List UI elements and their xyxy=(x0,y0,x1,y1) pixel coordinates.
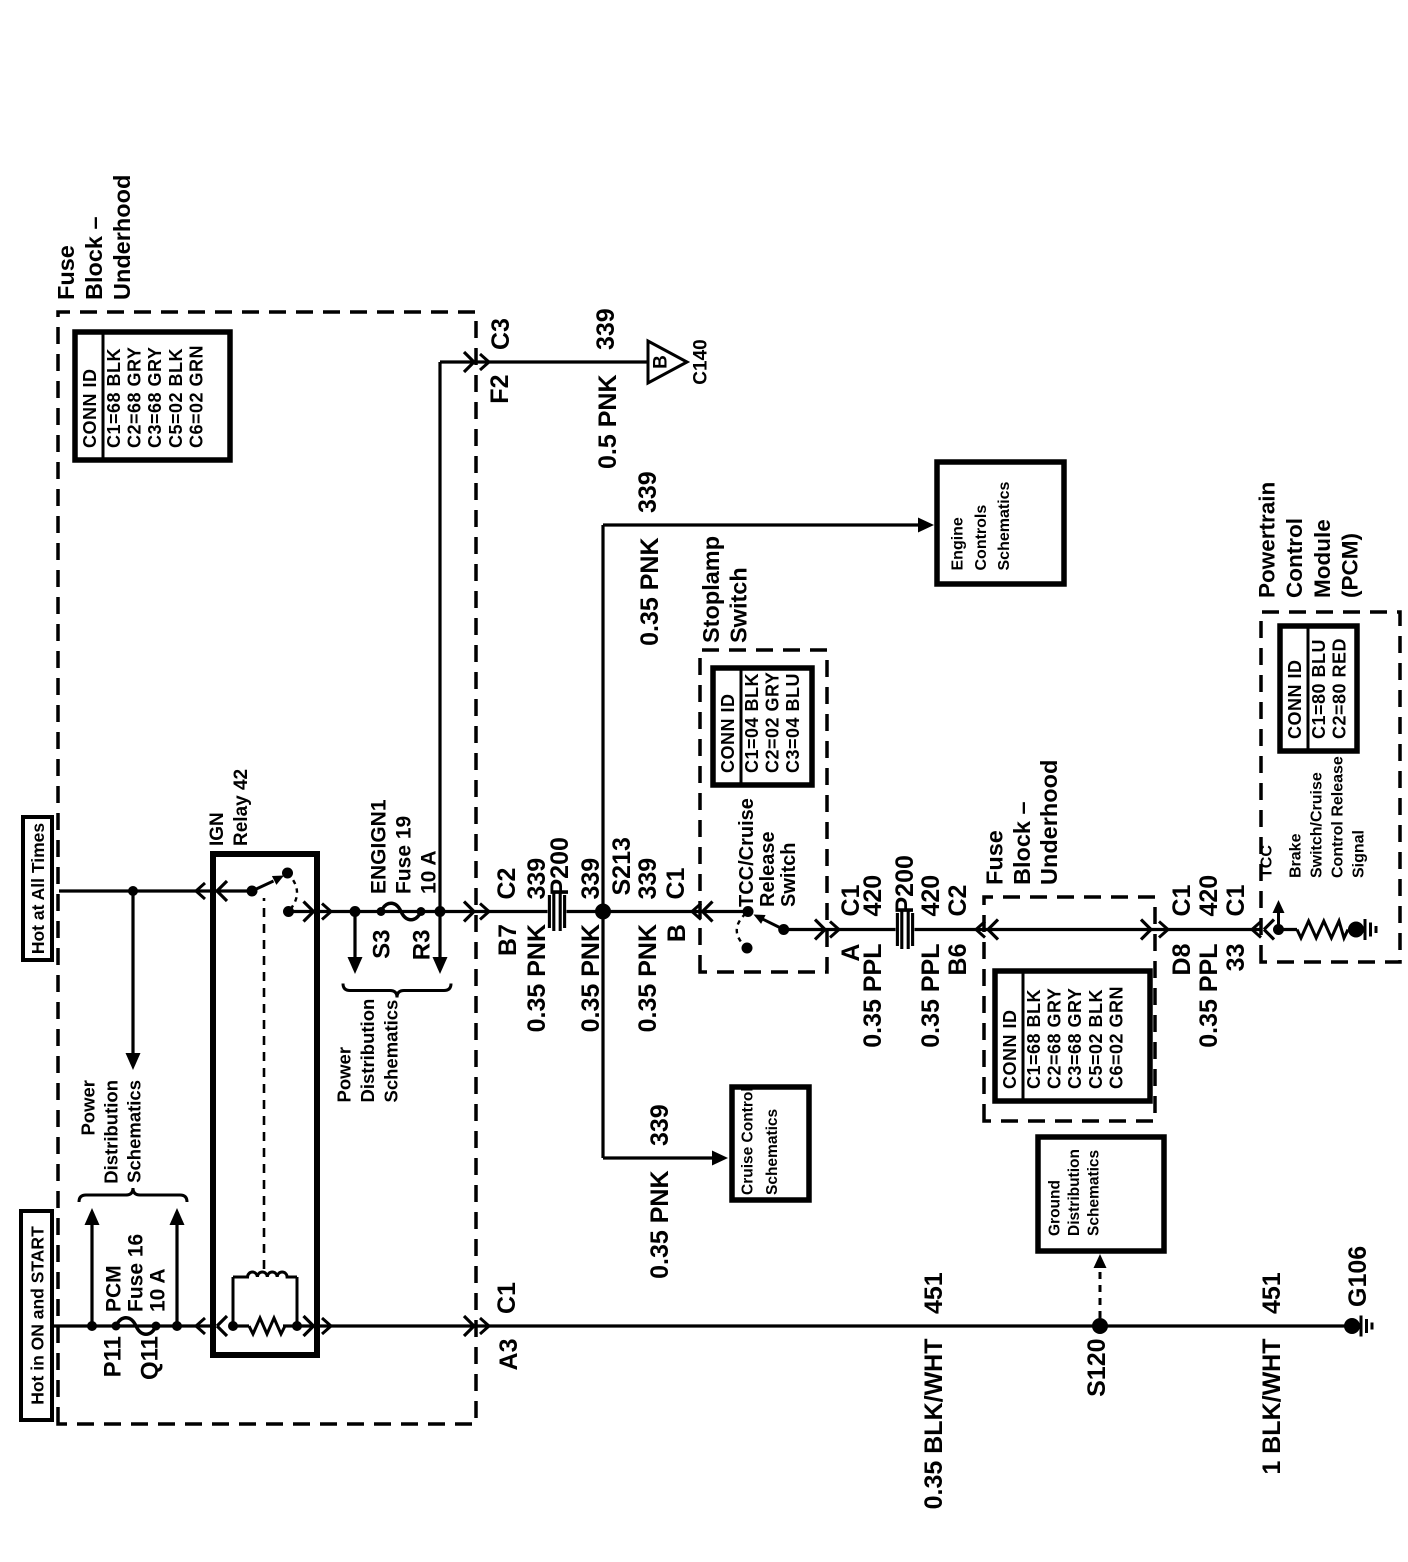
svg-text:0.5 PNK: 0.5 PNK xyxy=(594,375,622,469)
svg-text:1 BLK/WHT: 1 BLK/WHT xyxy=(1258,1339,1286,1475)
svg-text:C5=02 BLK: C5=02 BLK xyxy=(166,348,186,448)
svg-text:G106: G106 xyxy=(1344,1246,1372,1307)
svg-text:Engine: Engine xyxy=(950,517,967,570)
svg-text:C2: C2 xyxy=(944,885,972,917)
svg-text:F2: F2 xyxy=(486,375,514,404)
svg-text:0.35 BLK/WHT: 0.35 BLK/WHT xyxy=(920,1339,948,1510)
svg-text:C1: C1 xyxy=(493,1282,521,1314)
svg-text:339: 339 xyxy=(577,858,605,900)
svg-text:D8: D8 xyxy=(1168,943,1196,975)
svg-text:PCM: PCM xyxy=(103,1265,126,1312)
svg-text:Stoplamp: Stoplamp xyxy=(698,536,724,643)
svg-text:(PCM): (PCM) xyxy=(1338,533,1363,598)
svg-text:Block –: Block – xyxy=(81,216,107,300)
svg-text:C1: C1 xyxy=(1168,884,1196,916)
svg-text:451: 451 xyxy=(920,1272,948,1314)
svg-text:R3: R3 xyxy=(409,930,436,961)
svg-text:0.35 PPL: 0.35 PPL xyxy=(1195,944,1223,1048)
svg-text:Cruise Control: Cruise Control xyxy=(740,1087,757,1195)
svg-text:Block –: Block – xyxy=(1009,801,1035,885)
svg-text:C3=04 BLU: C3=04 BLU xyxy=(783,673,803,773)
svg-text:C5=02 BLK: C5=02 BLK xyxy=(1086,989,1106,1089)
svg-text:0.35 PNK: 0.35 PNK xyxy=(636,538,664,646)
svg-text:Signal: Signal xyxy=(1351,830,1368,878)
svg-text:CONN ID: CONN ID xyxy=(718,694,738,774)
svg-text:Switch: Switch xyxy=(726,567,752,643)
svg-text:Distribution: Distribution xyxy=(357,999,378,1103)
svg-text:Fuse 16: Fuse 16 xyxy=(125,1234,148,1312)
svg-text:CONN ID: CONN ID xyxy=(1285,660,1305,740)
svg-text:IGN: IGN xyxy=(207,812,228,846)
svg-text:Control: Control xyxy=(1282,518,1307,598)
svg-text:Schematics: Schematics xyxy=(1086,1150,1103,1236)
svg-text:Module: Module xyxy=(1310,519,1335,598)
svg-text:C1=68 BLK: C1=68 BLK xyxy=(104,348,124,448)
svg-text:Power: Power xyxy=(78,1080,99,1136)
svg-text:S213: S213 xyxy=(608,837,636,895)
svg-text:Brake: Brake xyxy=(1288,833,1305,878)
svg-text:ENGIGN1: ENGIGN1 xyxy=(368,799,391,894)
svg-text:C2=68 GRY: C2=68 GRY xyxy=(125,347,145,448)
svg-text:451: 451 xyxy=(1258,1272,1286,1314)
svg-text:C140: C140 xyxy=(691,339,712,384)
svg-text:Fuse: Fuse xyxy=(53,245,79,300)
svg-text:Fuse 19: Fuse 19 xyxy=(393,816,416,894)
svg-text:S120: S120 xyxy=(1083,1339,1111,1397)
svg-text:0.35 PPL: 0.35 PPL xyxy=(859,944,887,1048)
svg-text:0.35 PPL: 0.35 PPL xyxy=(917,944,945,1048)
svg-text:C1: C1 xyxy=(662,867,690,899)
svg-text:420: 420 xyxy=(859,875,887,917)
svg-text:Fuse: Fuse xyxy=(982,830,1008,885)
svg-text:C6=02 GRN: C6=02 GRN xyxy=(1106,986,1126,1089)
svg-text:Hot in ON and START: Hot in ON and START xyxy=(28,1226,48,1405)
svg-text:0.35 PNK: 0.35 PNK xyxy=(523,924,551,1032)
svg-text:B7: B7 xyxy=(494,924,522,956)
svg-text:C1=68 BLK: C1=68 BLK xyxy=(1024,989,1044,1089)
svg-text:Controls: Controls xyxy=(973,505,990,571)
svg-text:C1=04 BLK: C1=04 BLK xyxy=(742,673,762,773)
svg-text:Schematics: Schematics xyxy=(996,481,1013,570)
svg-text:10 A: 10 A xyxy=(147,1268,170,1312)
svg-text:B: B xyxy=(651,355,672,369)
svg-text:TCC: TCC xyxy=(1259,845,1276,878)
svg-text:420: 420 xyxy=(1195,875,1223,917)
svg-text:C2=80 RED: C2=80 RED xyxy=(1330,638,1350,739)
svg-text:TCC/Cruise: TCC/Cruise xyxy=(736,798,758,907)
svg-text:420: 420 xyxy=(917,875,945,917)
svg-text:Underhood: Underhood xyxy=(1036,760,1062,885)
svg-text:B: B xyxy=(663,924,691,942)
svg-text:Switch/Cruise: Switch/Cruise xyxy=(1309,772,1326,878)
svg-text:S3: S3 xyxy=(369,930,396,959)
svg-text:P200: P200 xyxy=(891,855,919,913)
svg-text:339: 339 xyxy=(634,471,662,513)
svg-text:C2=02 GRY: C2=02 GRY xyxy=(763,672,783,773)
svg-text:B6: B6 xyxy=(944,944,972,976)
svg-text:Relay 42: Relay 42 xyxy=(231,769,252,846)
svg-text:Release: Release xyxy=(757,831,779,907)
svg-text:Ground: Ground xyxy=(1047,1180,1064,1236)
svg-text:339: 339 xyxy=(646,1104,674,1146)
svg-text:Q11: Q11 xyxy=(137,1336,164,1380)
svg-text:CONN ID: CONN ID xyxy=(80,369,100,449)
svg-text:0.35 PNK: 0.35 PNK xyxy=(634,924,662,1032)
svg-text:Schematics: Schematics xyxy=(764,1109,781,1195)
svg-text:C2=68 GRY: C2=68 GRY xyxy=(1045,988,1065,1089)
svg-text:P11: P11 xyxy=(100,1336,127,1377)
svg-text:C6=02 GRN: C6=02 GRN xyxy=(186,345,206,448)
svg-text:C2: C2 xyxy=(493,868,521,900)
svg-text:C3=68 GRY: C3=68 GRY xyxy=(145,347,165,448)
svg-text:Underhood: Underhood xyxy=(109,175,135,300)
svg-text:C3: C3 xyxy=(487,318,515,350)
svg-text:339: 339 xyxy=(592,308,620,350)
svg-text:C1: C1 xyxy=(1222,884,1250,916)
svg-text:A3: A3 xyxy=(495,1339,523,1371)
svg-text:Distribution: Distribution xyxy=(101,1080,122,1184)
svg-text:Switch: Switch xyxy=(778,843,800,907)
svg-text:Schematics: Schematics xyxy=(124,1080,145,1183)
svg-text:0.35 PNK: 0.35 PNK xyxy=(577,924,605,1032)
svg-text:Control Release: Control Release xyxy=(1330,756,1347,878)
svg-text:Schematics: Schematics xyxy=(381,1000,402,1103)
svg-text:C3=68 GRY: C3=68 GRY xyxy=(1065,988,1085,1089)
svg-text:C1=80 BLU: C1=80 BLU xyxy=(1309,639,1329,739)
svg-text:33: 33 xyxy=(1222,944,1250,972)
svg-text:10 A: 10 A xyxy=(418,850,441,894)
svg-text:Distribution: Distribution xyxy=(1066,1149,1083,1236)
svg-text:P200: P200 xyxy=(546,837,574,895)
svg-text:CONN ID: CONN ID xyxy=(1000,1010,1020,1090)
svg-text:Powertrain: Powertrain xyxy=(1255,482,1280,598)
svg-text:Power: Power xyxy=(334,1047,355,1103)
svg-text:339: 339 xyxy=(634,858,662,900)
svg-text:0.35 PNK: 0.35 PNK xyxy=(646,1171,674,1279)
svg-text:Hot at All Times: Hot at All Times xyxy=(28,823,48,955)
